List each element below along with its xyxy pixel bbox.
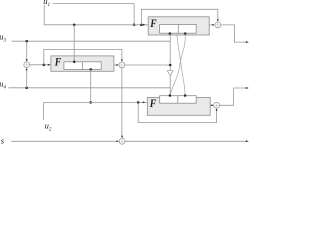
svg-text:u4: u4 (0, 78, 6, 90)
node entry dot on middle cell top (73, 61, 76, 64)
node junction u3 tap to XOR (25, 40, 28, 43)
arrow output top right (246, 41, 249, 43)
wire u2 stem up (43, 102, 45, 119)
arrow into bottom XOR from left (211, 104, 213, 106)
label F of bottom block (149, 97, 157, 110)
wire u1 right drop (133, 4, 135, 25)
arrow into bottom F block (143, 101, 146, 103)
wire middle XOR output down to s XOR (121, 68, 123, 138)
wire middle feedback loop (44, 49, 122, 64)
node junction feed to middle cells (73, 24, 76, 27)
wire u3 drop to left XOR (26, 41, 28, 60)
wire u1 top horizontal (53, 3, 134, 5)
wire middle F output to XOR (114, 64, 118, 66)
svg-text:F: F (149, 97, 157, 110)
wire u4 horizontal line (8, 87, 170, 89)
svg-text:F: F (149, 17, 157, 30)
wire bottom F output to XOR (210, 104, 213, 106)
node tap dot top cell 2 (184, 32, 187, 35)
node cell tap dot on middle cell bottom (89, 68, 92, 71)
arrow into top XOR from left (212, 24, 214, 26)
wire bottom output to right edge (220, 88, 247, 105)
node junction control with middle XOR line (169, 64, 172, 67)
arrow into s XOR from left (117, 140, 119, 142)
clock arrow open triangle (167, 71, 173, 76)
wire s line left segment (11, 140, 117, 142)
node junction u4 tap to XOR (25, 87, 28, 90)
wire middle XOR output right to control node (125, 64, 170, 66)
svg-text:F: F (54, 55, 62, 68)
crossing wire B to bottom cell2 (177, 34, 185, 96)
wire top F output to XOR (209, 24, 214, 26)
wire top input line into F1 (44, 24, 148, 26)
wire middle cell bottom tap down to u2 line (90, 69, 92, 102)
wire s line right segment (125, 140, 246, 142)
node tap dot top cell 1 (169, 32, 172, 35)
register U1 shift cells (160, 25, 197, 34)
register block U2 (middle F) body (51, 56, 114, 71)
wire left XOR output to middle F input (30, 64, 51, 66)
node junction u1 drop on input line (133, 24, 136, 27)
XOR adder bottom (214, 102, 220, 108)
wire u4 riser to left XOR (26, 69, 28, 88)
node junction middle feedback tap (43, 64, 46, 67)
label F of top block (149, 17, 157, 30)
arrow down into left XOR (26, 59, 28, 61)
arrow into middle F block (48, 64, 51, 66)
arrow down into top XOR (217, 19, 219, 21)
arrow down into middle XOR (121, 60, 123, 62)
node entry dot bottom cell 1 (169, 94, 172, 97)
node entry dot bottom cell 2 (184, 94, 187, 97)
wire u1 left stem (43, 5, 45, 25)
wire top feedback loop (141, 9, 217, 24)
register U2 shift cells (64, 62, 101, 70)
register block U1 (top F) body (148, 17, 209, 35)
wire u2 horizontal into bottom F (44, 101, 148, 103)
label F of middle block (54, 55, 62, 68)
node junction top feedback tap (140, 24, 143, 27)
XOR adder s (119, 138, 125, 144)
arrow up into bottom XOR (216, 108, 218, 110)
wire control vertical from top cell tap (169, 34, 171, 71)
wire control vertical continues to bottom cell (169, 76, 171, 96)
arrow into middle XOR from left (116, 64, 118, 66)
wire bottom feedback loop (138, 102, 216, 122)
XOR adder middle (119, 62, 125, 68)
register U3 shift cells (160, 96, 197, 104)
crossing wire A top cell2 to bottom cell1 (170, 34, 185, 96)
arrow into top F block (143, 24, 146, 26)
wire drop from top input line into middle cells (73, 25, 75, 62)
wire top output to right edge (221, 25, 247, 42)
arrow down into s XOR (121, 136, 123, 138)
XOR adder top (215, 22, 221, 28)
arrow output s right (246, 140, 249, 142)
node junction bottom feedback tap (137, 101, 140, 104)
XOR adder left (24, 62, 30, 68)
arrow up into left XOR (26, 68, 28, 70)
wire u3 horizontal line (12, 40, 171, 42)
node junction on u2 line (89, 101, 92, 104)
register block U3 (bottom F) body (147, 98, 210, 116)
svg-text:u2: u2 (45, 120, 52, 132)
svg-text:s: s (1, 135, 5, 145)
arrow output bottom right (246, 87, 249, 89)
svg-text:u3: u3 (0, 32, 6, 44)
